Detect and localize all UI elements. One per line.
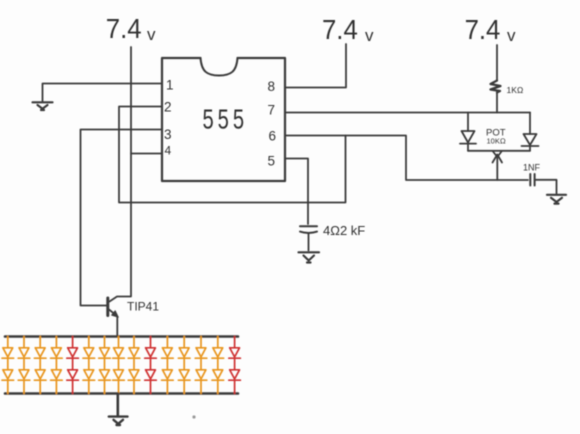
wire: C2 to ground [535,180,557,194]
LED column 7 [99,337,111,394]
wire: pin 8 VCC riser to 7.4V [285,44,346,88]
stray ink dot [192,415,195,418]
wire: pin 3 output to transistor base [81,130,163,306]
ground (below C1) [299,252,320,262]
LED column 13 [195,337,207,394]
ground (top-left) [33,102,53,110]
wire: pin 2 trigger routed under IC to node at pin 6 [119,107,346,203]
wire: right branch down from top rail [529,113,531,135]
wire: pin 7 discharge to diode network top rail [285,112,530,114]
op-amp U1: 555 timer IC body [162,58,285,181]
LED column 15 (red) [229,337,241,394]
wire: right 7.4V down to resistor R1 [496,45,498,81]
diode D2 (right) [522,134,539,146]
svg-text:10KΩ: 10KΩ [487,137,506,146]
svg-text:1NF: 1NF [523,163,541,173]
transistor Q1 emitter with arrow [109,309,115,314]
svg-text:v: v [507,26,516,45]
wire: +7.4V supply rail down to transistor collector [110,47,132,302]
svg-text:5: 5 [268,154,276,169]
LED column 10 (red) [145,337,157,394]
LED column 14 [212,337,224,394]
svg-text:1: 1 [166,78,174,93]
svg-text:7.4: 7.4 [322,14,358,45]
capacitor C1 4u2 plates [300,226,317,233]
svg-text:4: 4 [165,144,172,158]
LED column 11 [162,337,174,394]
LED column 1 [2,337,14,394]
svg-text:v: v [365,26,374,45]
ground (right, below C2) [547,195,566,204]
wire: LED array bottom rail to ground [117,394,120,416]
LED array bottom rail [5,392,238,395]
svg-text:7.4: 7.4 [106,13,142,44]
svg-text:TIP41: TIP41 [127,300,159,314]
wire: pin 1 to ground [43,84,163,102]
ground (bottom, below LED array) [109,417,128,425]
svg-text:6: 6 [269,129,277,144]
svg-text:555: 555 [203,104,248,135]
LED column 12 [178,337,190,394]
wire: Q1 emitter down to LED array [116,317,118,337]
diode D1 (left) [460,131,476,144]
power label 7.4V (right) [465,14,516,45]
power label 7.4V (middle) [322,14,374,45]
svg-text:1KΩ: 1KΩ [507,85,524,95]
resistor R1 1k (hand zigzag) [491,81,501,93]
svg-text:4Ω2 kF: 4Ω2 kF [323,223,365,238]
wire: capacitor C1 to ground [308,234,310,251]
pot wiper arrow [493,152,503,181]
LED column 3 [34,337,46,394]
wire: pot bottom rail [468,150,530,152]
LED column 4 [51,337,63,394]
LED column 2 [18,337,30,394]
LED column 9 [128,337,140,394]
svg-text:7.4: 7.4 [465,14,501,45]
wire: D1 to bottom rail [467,144,469,151]
LED array top rail [5,335,238,338]
LED column 5 (red) [67,337,79,394]
svg-text:7: 7 [268,103,276,118]
power label 7.4V (left) [106,13,156,44]
wire: resistor R1 to top rail of pot network [496,93,498,113]
wire: pin 4 reset to supply rail [131,153,162,155]
LED column 8 [113,337,125,394]
svg-text:8: 8 [268,79,276,94]
LED column 6 [83,337,95,394]
wire: pin 6 threshold to wiper node [285,136,528,181]
svg-text:3: 3 [164,127,172,142]
wire: D2 to bottom rail [529,146,531,151]
capacitor C2 1nF plates [530,174,534,186]
svg-text:v: v [147,25,156,44]
svg-text:2: 2 [164,100,172,115]
transistor Q1 TIP41 base bar [106,298,109,316]
wire: left branch down from top rail [467,113,469,132]
wire: pin 5 control voltage down to capacitor [285,159,308,225]
IC notch [201,58,238,76]
